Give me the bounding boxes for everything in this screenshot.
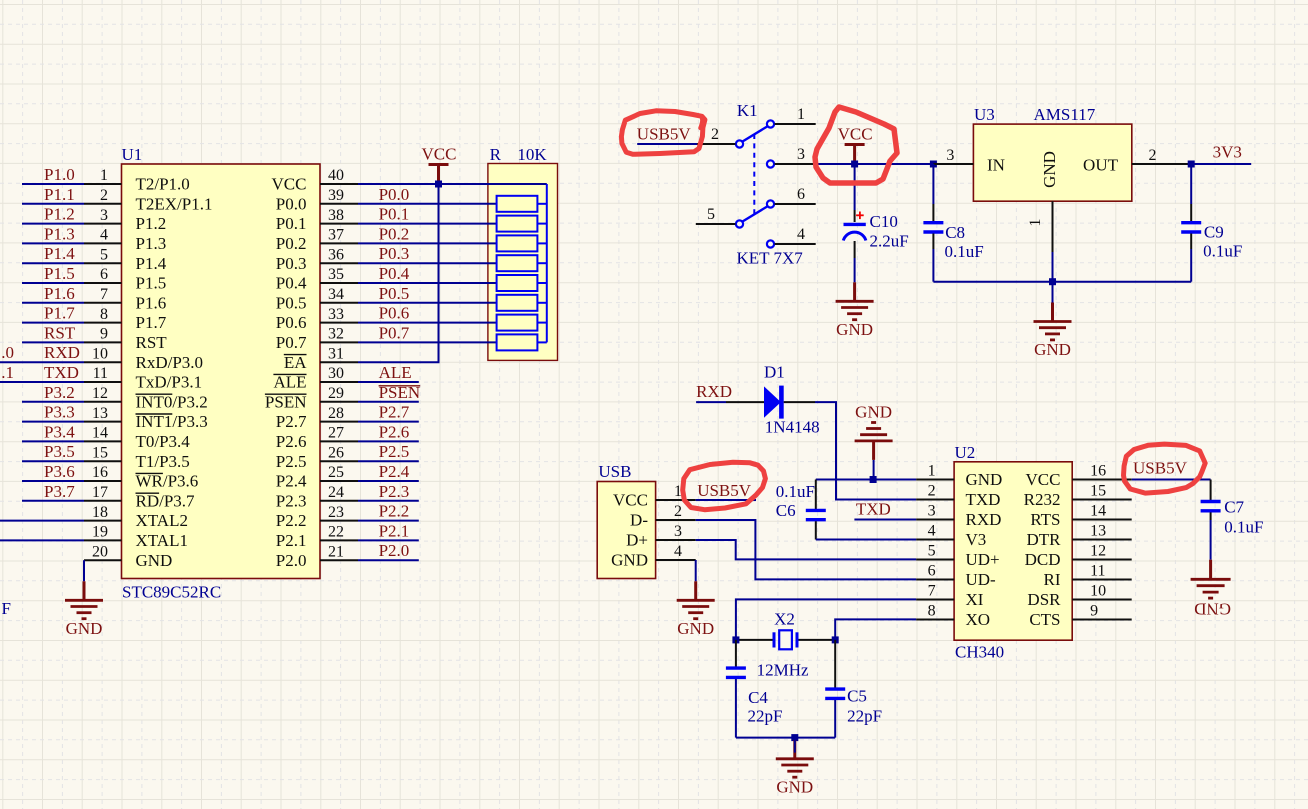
svg-text:11: 11 (1090, 563, 1105, 580)
wire EA to VCC (358, 184, 439, 362)
svg-text:CH340: CH340 (955, 643, 1004, 662)
wire XTAL1 (0, 539, 84, 541)
K1 pin 3 (775, 146, 814, 164)
svg-text:7: 7 (100, 286, 108, 303)
svg-text:XTAL2: XTAL2 (136, 511, 188, 530)
U1 pin 17 (RD/P3.7) (84, 484, 195, 510)
svg-text:RxD/P3.0: RxD/P3.0 (136, 353, 204, 372)
wire net RXD (0, 361, 84, 363)
svg-text:26: 26 (328, 444, 344, 461)
svg-text:F: F (2, 599, 11, 618)
svg-text:U1: U1 (122, 145, 143, 164)
svg-text:5: 5 (707, 206, 715, 223)
U1 pin 25 (P2.4) (276, 464, 358, 490)
svg-text:DTR: DTR (1027, 530, 1062, 549)
capacitor C9 plates (1181, 223, 1201, 232)
svg-text:VCC: VCC (272, 175, 307, 194)
svg-text:USB5V: USB5V (637, 125, 692, 144)
svg-text:C7: C7 (1224, 498, 1244, 517)
U1 pin 10 (RxD/P3.0) (84, 345, 203, 371)
svg-text:VCC: VCC (838, 125, 873, 144)
svg-text:3: 3 (100, 207, 108, 224)
svg-text:K1: K1 (737, 101, 758, 120)
svg-text:U2: U2 (955, 443, 976, 462)
svg-text:P0.4: P0.4 (379, 264, 410, 283)
svg-text:RXD: RXD (44, 343, 80, 362)
svg-text:P2.3: P2.3 (276, 491, 307, 510)
svg-text:37: 37 (328, 227, 344, 244)
svg-text:16: 16 (92, 464, 108, 481)
svg-text:0.1uF: 0.1uF (945, 242, 984, 261)
U2 pin 12 (DCD) (1025, 543, 1132, 569)
svg-text:R: R (490, 145, 502, 164)
wire net RST (22, 341, 84, 343)
svg-text:3: 3 (946, 147, 954, 164)
U1 pin 1 (T2/P1.0) (84, 167, 190, 193)
svg-text:USB5V: USB5V (1133, 459, 1188, 478)
svg-text:P0.1: P0.1 (276, 214, 307, 233)
svg-text:P2.0: P2.0 (379, 541, 410, 560)
svg-text:GND: GND (1194, 599, 1231, 618)
U2 pin 14 (RTS) (1030, 503, 1131, 529)
wire net P0.7 (358, 341, 497, 343)
svg-text:P2.2: P2.2 (276, 511, 307, 530)
wire net P0.4 (358, 282, 497, 284)
svg-text:32: 32 (328, 326, 344, 343)
svg-text:4: 4 (797, 226, 805, 243)
resistor network R 10K body (488, 145, 558, 360)
U1 pin 35 (P0.4) (276, 266, 358, 292)
svg-text:P2.7: P2.7 (379, 403, 410, 422)
svg-text:1N4148: 1N4148 (765, 418, 820, 437)
svg-text:GND: GND (611, 551, 648, 570)
U1 pin 22 (P2.1) (276, 524, 358, 550)
wire net USB5V (U2 VCC) (1132, 479, 1211, 481)
svg-text:C8: C8 (945, 223, 965, 242)
svg-text:T2/P1.0: T2/P1.0 (136, 175, 190, 194)
svg-text:GND: GND (836, 320, 873, 339)
wire net P2.2 (358, 520, 419, 522)
svg-text:ALE: ALE (379, 363, 412, 382)
U3 pin 3 (IN) (933, 147, 973, 164)
svg-text:DCD: DCD (1025, 550, 1061, 569)
svg-text:P3.5: P3.5 (44, 442, 75, 461)
USB pin 1 (656, 483, 696, 500)
svg-text:DSR: DSR (1027, 590, 1061, 609)
wire net TXD (0, 381, 84, 383)
U1 pin 38 (P0.1) (276, 207, 358, 233)
svg-text:RXD: RXD (696, 382, 732, 401)
svg-text:3: 3 (928, 503, 936, 520)
svg-text:C4: C4 (748, 688, 768, 707)
resistor network common wire (546, 184, 548, 342)
VCC power symbol (U1) (422, 145, 457, 185)
svg-text:X2: X2 (774, 610, 795, 629)
U1 pin 15 (T1/P3.5) (84, 444, 190, 470)
svg-text:CTS: CTS (1029, 610, 1060, 629)
svg-text:4: 4 (100, 227, 108, 244)
svg-text:P1.7: P1.7 (44, 304, 75, 323)
U1 pin 29 (PSEN) (265, 385, 358, 411)
svg-text:25: 25 (328, 464, 344, 481)
svg-text:31: 31 (328, 345, 344, 362)
svg-text:27: 27 (328, 425, 344, 442)
svg-text:RXD: RXD (966, 510, 1002, 529)
junction VCC/EA (435, 181, 442, 188)
wire U1 GND (83, 560, 85, 581)
svg-text:6: 6 (928, 563, 936, 580)
svg-text:22: 22 (328, 524, 344, 541)
svg-text:35: 35 (328, 266, 344, 283)
capacitor C5 plates (825, 689, 845, 698)
svg-text:TXD: TXD (44, 363, 79, 382)
svg-text:28: 28 (328, 405, 344, 422)
svg-text:1: 1 (928, 463, 936, 480)
diode D1 1N4148 (726, 363, 820, 437)
junction crystal ground (791, 734, 798, 741)
svg-text:3: 3 (674, 523, 682, 540)
svg-text:P0.6: P0.6 (379, 304, 410, 323)
wire net P1.1 (22, 203, 84, 205)
svg-text:P0.5: P0.5 (379, 284, 410, 303)
capacitor C7 plates (1201, 502, 1221, 511)
wire net P0.6 (358, 322, 497, 324)
svg-text:GND: GND (1034, 340, 1071, 359)
svg-text:3V3: 3V3 (1213, 143, 1242, 162)
U1 pin 11 (TxD/P3.1) (84, 365, 202, 391)
wire net P3.7 (22, 500, 84, 502)
svg-text:P2.4: P2.4 (379, 462, 410, 481)
U1 pin 3 (P1.2) (84, 207, 166, 233)
svg-text:D-: D- (630, 511, 648, 530)
U1 pin 4 (P1.3) (84, 227, 166, 253)
capacitor C5 22pF (834, 640, 836, 688)
svg-text:4: 4 (674, 543, 682, 560)
svg-text:.1: .1 (1, 363, 14, 382)
svg-text:P0.7: P0.7 (276, 333, 307, 352)
svg-text:2: 2 (928, 483, 936, 500)
svg-text:P0.5: P0.5 (276, 293, 307, 312)
wire net USB5V (696, 499, 756, 501)
svg-text:P2.6: P2.6 (276, 432, 307, 451)
wire net P2.3 (358, 500, 419, 502)
annotation circle around USB5V (C7) (1124, 444, 1206, 493)
svg-text:WR/P3.6: WR/P3.6 (136, 472, 199, 491)
junction C8/IN (930, 161, 937, 168)
U1 pin 2 (T2EX/P1.1) (84, 187, 212, 213)
resistor R element 1 (10K) (497, 196, 547, 212)
svg-text:P2.2: P2.2 (379, 502, 410, 521)
junction VCC/C10 (851, 161, 858, 168)
svg-text:20: 20 (92, 543, 108, 560)
svg-text:XI: XI (966, 590, 984, 609)
U3 pin 1 (GND) (1027, 201, 1053, 252)
U1 pin 8 (P1.7) (84, 306, 167, 332)
U1 pin 36 (P0.3) (276, 246, 358, 272)
svg-text:T1/P3.5: T1/P3.5 (136, 452, 190, 471)
wire net P3.2 (22, 401, 84, 403)
svg-text:1: 1 (1027, 219, 1044, 227)
ground (U1 pin 20) (65, 581, 103, 638)
svg-text:22pF: 22pF (748, 707, 783, 726)
capacitor C7 0.1uF (1210, 480, 1212, 501)
svg-text:P3.2: P3.2 (44, 383, 75, 402)
capacitor C8 plates (923, 223, 943, 232)
svg-text:STC89C52RC: STC89C52RC (122, 583, 221, 602)
U1 pin 14 (T0/P3.4) (84, 425, 190, 451)
svg-text:ALE: ALE (273, 373, 306, 392)
svg-text:VCC: VCC (1026, 470, 1061, 489)
wire net P2.4 (358, 480, 419, 482)
U2 pin 11 (RI) (1044, 563, 1132, 589)
wire net P0.0 (358, 203, 497, 205)
wire D+ to UD+ (696, 540, 916, 559)
svg-text:13: 13 (92, 405, 108, 422)
svg-text:USB: USB (598, 462, 631, 481)
svg-text:GND: GND (1040, 151, 1059, 188)
svg-text:RTS: RTS (1030, 510, 1060, 529)
svg-text:8: 8 (928, 603, 936, 620)
svg-text:RST: RST (44, 323, 76, 342)
svg-text:9: 9 (1090, 603, 1098, 620)
wire net P3.4 (22, 440, 84, 442)
resistor R element 5 (10K) (497, 275, 547, 291)
svg-text:TXD: TXD (966, 490, 1001, 509)
wire net P2.1 (358, 539, 419, 541)
K1 pin 2 (697, 126, 736, 144)
wire gnd stub (1052, 282, 1054, 303)
svg-text:10: 10 (1090, 583, 1106, 600)
wire C6 to U2 GND (816, 479, 916, 481)
svg-text:29: 29 (328, 385, 344, 402)
svg-text:P1.7: P1.7 (136, 313, 167, 332)
svg-text:14: 14 (92, 425, 108, 442)
svg-text:P1.2: P1.2 (136, 214, 167, 233)
svg-text:USB5V: USB5V (697, 481, 752, 500)
svg-text:GND: GND (966, 470, 1003, 489)
svg-text:P1.0: P1.0 (44, 165, 75, 184)
svg-text:P3.3: P3.3 (44, 403, 75, 422)
svg-text:PSEN: PSEN (265, 392, 307, 411)
ground (C10) (836, 282, 874, 339)
U1 pin 39 (P0.0) (276, 187, 358, 213)
svg-text:P1.4: P1.4 (44, 244, 75, 263)
svg-text:P2.7: P2.7 (276, 412, 307, 431)
capacitor C8 0.1uF (932, 164, 934, 222)
IC U2 CH340 body (954, 443, 1072, 662)
wire net P2.7 (358, 421, 419, 423)
USB pin 3 (656, 523, 696, 540)
svg-text:P1.5: P1.5 (44, 264, 75, 283)
svg-text:P2.5: P2.5 (379, 442, 410, 461)
svg-text:C10: C10 (870, 212, 898, 231)
capacitor C9 0.1uF (1190, 164, 1192, 222)
wire XTAL2 (0, 520, 84, 522)
ground (C7, label rotated 180) (1191, 560, 1231, 619)
U3 pin 2 (OUT) (1132, 147, 1191, 164)
wire net P0.5 (358, 302, 497, 304)
svg-text:KET 7X7: KET 7X7 (737, 249, 804, 268)
svg-text:EA: EA (284, 353, 307, 372)
svg-text:33: 33 (328, 306, 344, 323)
wire net P1.3 (22, 242, 84, 244)
U1 pin 16 (WR/P3.6) (84, 464, 198, 490)
wire D- to UD- (696, 520, 916, 579)
svg-text:P3.4: P3.4 (44, 422, 75, 441)
svg-text:7: 7 (928, 583, 936, 600)
svg-text:RST: RST (136, 333, 168, 352)
svg-text:P0.3: P0.3 (379, 244, 410, 263)
wire USB GND (695, 560, 697, 581)
svg-text:P1.5: P1.5 (136, 274, 167, 293)
wire gnd stub (794, 738, 796, 753)
U1 pin 7 (P1.6) (84, 286, 166, 312)
svg-text:2: 2 (711, 126, 719, 143)
K1 pin 6 (775, 186, 816, 204)
junction U2 pin1/GND (870, 476, 877, 483)
capacitor C4 22pF (735, 640, 737, 667)
wire net P3.3 (22, 421, 84, 423)
svg-text:XO: XO (966, 610, 991, 629)
U2 pin 8 (XO) (916, 603, 990, 629)
crystal X2 12MHz (736, 610, 835, 680)
resistor R element 6 (10K) (497, 295, 547, 311)
svg-text:P0.7: P0.7 (379, 323, 410, 342)
wire XO (835, 619, 916, 640)
wire net P2.5 (358, 460, 419, 462)
wire C4-C5 ground (736, 737, 835, 739)
U1 pin 32 (P0.7) (276, 326, 358, 352)
svg-text:GND: GND (66, 619, 103, 638)
svg-text:24: 24 (328, 484, 344, 501)
svg-text:TXD: TXD (856, 500, 891, 519)
wire net P1.6 (22, 302, 84, 304)
resistor R element 2 (10K) (497, 216, 547, 232)
svg-text:21: 21 (328, 543, 344, 560)
svg-text:10K: 10K (517, 145, 547, 164)
U2 pin 15 (R232) (1024, 483, 1132, 509)
svg-text:P0.0: P0.0 (379, 185, 410, 204)
svg-text:T0/P3.4: T0/P3.4 (136, 432, 191, 451)
svg-text:16: 16 (1090, 463, 1106, 480)
svg-text:23: 23 (328, 504, 344, 521)
svg-text:OUT: OUT (1083, 156, 1119, 175)
svg-text:18: 18 (92, 504, 108, 521)
USB pin 4 (656, 543, 696, 560)
U1 pin 6 (P1.5) (84, 266, 166, 292)
svg-text:D1: D1 (764, 363, 785, 382)
U1 pin 26 (P2.5) (276, 444, 358, 470)
wire net P0.2 (358, 242, 497, 244)
U2 pin 1 (GND) (916, 463, 1002, 489)
U2 pin 4 (V3) (916, 523, 986, 549)
svg-text:0.1uF: 0.1uF (776, 482, 815, 501)
wire K1 pin3 to U3 IN (813, 163, 933, 165)
U2 pin 10 (DSR) (1027, 583, 1131, 609)
svg-text:GND: GND (136, 551, 173, 570)
svg-text:1: 1 (797, 106, 805, 123)
wire C6 to V3 (816, 539, 916, 541)
svg-text:UD-: UD- (966, 570, 997, 589)
svg-text:P1.3: P1.3 (136, 234, 167, 253)
svg-text:R232: R232 (1024, 490, 1061, 509)
svg-text:2: 2 (100, 187, 108, 204)
U1 pin 34 (P0.5) (276, 286, 358, 312)
U2 pin 9 (CTS) (1029, 603, 1131, 629)
junction ground rail (1049, 278, 1056, 285)
svg-text:P1.3: P1.3 (44, 224, 75, 243)
svg-text:P1.2: P1.2 (44, 205, 75, 224)
wire net P3.5 (22, 460, 84, 462)
U1 pin 18 (XTAL2) (84, 504, 188, 530)
svg-text:GND: GND (677, 619, 714, 638)
svg-text:17: 17 (92, 484, 108, 501)
U2 pin 7 (XI) (916, 583, 984, 609)
svg-text:C5: C5 (847, 687, 867, 706)
annotation circle around USB5V (USB) (683, 462, 766, 509)
U1 pin 5 (P1.4) (84, 246, 167, 272)
svg-text:11: 11 (93, 365, 108, 382)
U2 pin 6 (UD-) (916, 563, 996, 589)
resistor R element 3 (10K) (497, 235, 547, 251)
wire net P0.3 (358, 262, 497, 264)
ground (U2 pin1, inverted) (855, 403, 893, 460)
K1 pin 5 (696, 206, 736, 224)
svg-text:P2.6: P2.6 (379, 422, 410, 441)
svg-text:2.2uF: 2.2uF (870, 232, 909, 251)
svg-text:VCC: VCC (422, 145, 457, 164)
U1 pin 28 (P2.7) (276, 405, 358, 431)
U1 pin 33 (P0.6) (276, 306, 358, 332)
U1 pin 12 (INT0/P3.2) (84, 385, 208, 411)
USB pin 2 (656, 503, 696, 520)
U1 pin 37 (P0.2) (276, 227, 358, 253)
svg-text:36: 36 (328, 246, 344, 263)
svg-text:TxD/P3.1: TxD/P3.1 (136, 373, 203, 392)
svg-text:30: 30 (328, 365, 344, 382)
U1 pin 19 (XTAL1) (84, 524, 188, 550)
wire VCC to resistor network (358, 183, 547, 185)
svg-text:C6: C6 (776, 501, 796, 520)
svg-text:P0.0: P0.0 (276, 194, 307, 213)
junction OUT/C9/3V3 (1188, 161, 1195, 168)
svg-text:19: 19 (92, 524, 108, 541)
svg-text:12: 12 (92, 385, 108, 402)
wire net 3V3 (1191, 163, 1251, 165)
wire net P0.1 (358, 223, 497, 225)
svg-text:2: 2 (1149, 147, 1157, 164)
U2 pin 3 (RXD) (916, 503, 1001, 529)
svg-text:12MHz: 12MHz (757, 661, 809, 680)
svg-text:RI: RI (1044, 570, 1061, 589)
svg-text:5: 5 (100, 246, 108, 263)
capacitor C4 plates (726, 668, 746, 677)
svg-text:1: 1 (100, 167, 108, 184)
svg-text:P1.1: P1.1 (44, 185, 75, 204)
U1 pin 20 (GND) (84, 543, 172, 569)
connector USB body (597, 462, 655, 579)
svg-text:GND: GND (776, 777, 813, 796)
K1 pin 1 (775, 106, 816, 124)
ground (crystal) (776, 740, 814, 797)
svg-text:T2EX/P1.1: T2EX/P1.1 (136, 194, 213, 213)
svg-text:P2.1: P2.1 (379, 521, 410, 540)
U1 pin 24 (P2.3) (276, 484, 358, 510)
U1 pin 31 (EA) (284, 345, 358, 371)
svg-text:P3.6: P3.6 (44, 462, 75, 481)
wire RXD (696, 401, 726, 403)
svg-text:D+: D+ (626, 531, 648, 550)
